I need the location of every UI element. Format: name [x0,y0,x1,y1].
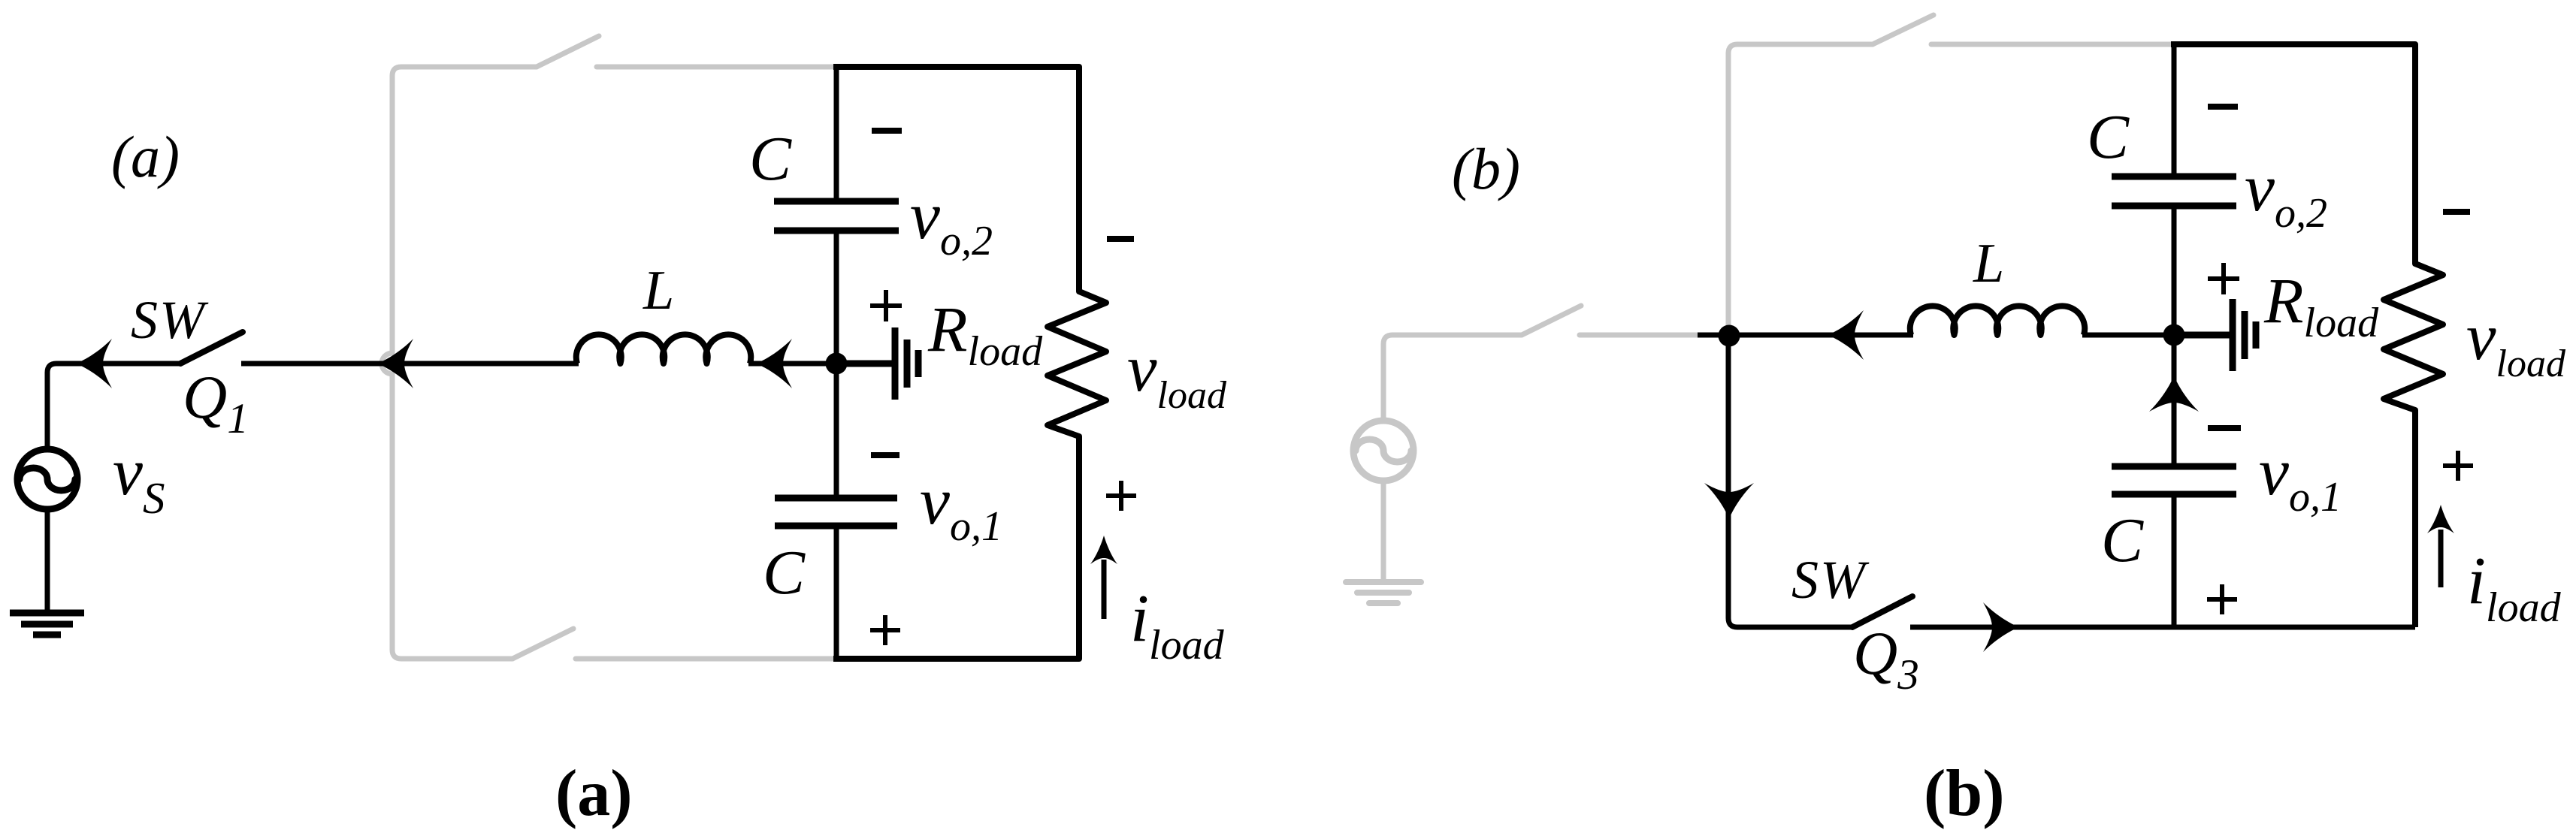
iload arrowhead of circuit (b) [2427,505,2454,533]
inductor L of circuit (b) [1910,306,2085,335]
wire from inductor L to capacitor-branch node, circuit (b) [2082,333,2174,338]
iload arrow shaft of circuit (a) [1102,560,1107,619]
vertical wire from node junction down and bottom rail left segment to switch, circuit (b) [1728,335,1852,627]
wire: gray segment from switch to node junction of circuit (b) [1580,333,1700,338]
capacitor branch vertical wire upper part, circuit (a) [834,69,839,198]
plus sign at bottom of load resistor, circuit (a) [1106,481,1136,511]
minus sign above bottom capacitor, circuit (a) [871,452,899,458]
minus sign at top of load resistor, circuit (a) [1107,236,1134,242]
minus sign above top capacitor, circuit (b) [2208,104,2238,110]
current arrowhead on wire near source vS, circuit (a) [76,339,112,388]
capacitor branch vertical wire middle part, circuit (a) [834,234,839,495]
current arrowhead pointing down on vertical wire, circuit (b) [1704,483,1754,519]
svg-text:vo,1: vo,1 [2259,435,2342,521]
capacitor branch vertical wire middle part, circuit (b) [2172,209,2177,463]
wire from source vS up to switch SW [47,364,180,449]
switch blade (open, gray) on top rail of circuit (b) [1873,15,1934,44]
current arrowhead on wire toward node junction, circuit (b) [1828,310,1864,360]
svg-text:C: C [2087,102,2130,172]
capacitor C (top) plates of circuit (b) [2112,177,2236,206]
minus sign at top of load resistor, circuit (b) [2443,209,2470,215]
wire from switch SW to inductor L of circuit (a) [241,361,579,367]
svg-text:SW: SW [1791,550,1870,610]
svg-text:C: C [749,124,792,194]
minus sign below capacitor node, circuit (b) [2208,425,2241,431]
capacitor branch vertical wire lower part, circuit (b) [2172,497,2177,627]
svg-text:iload: iload [1130,581,1225,668]
svg-text:vload: vload [2466,300,2566,385]
wire from source vS down to ground [45,509,50,611]
wire: gray source branch of circuit (b): vertical up from source and horizontal to switch [1383,335,1522,418]
wire: gray top rail right segment of circuit (b) [1931,42,2172,47]
svg-text:(b): (b) [1924,757,2005,830]
node junction dot (left) of circuit (b) [1719,325,1740,347]
load loop: top rail, right branch with resistor Rload zigzag, circuit (b) [2171,44,2443,627]
wire from gray source down to gray ground, circuit (b) [1381,484,1386,580]
capacitor C (top) plates of circuit (a) [774,201,899,231]
wire: bottom rail from switch to load loop, circuit (b) [1910,625,2415,630]
svg-text:(b): (b) [1452,136,1520,201]
wire: gray top rail left segment and vertical of circuit (b) [1728,44,1873,332]
wire: gray bottom rail right segment of circuit (a) [576,656,835,662]
wire from node junction to inductor L, circuit (b) [1698,333,1913,338]
wire: gray top rail right segment of circuit (a) [597,65,834,70]
capacitor C (bottom) plates of circuit (b) [2112,466,2236,494]
svg-text:(a): (a) [111,124,180,189]
svg-text:L: L [1973,233,2004,294]
svg-text:C: C [2101,506,2144,575]
source vS sine wave symbol [20,468,75,490]
svg-text:vo,2: vo,2 [910,179,993,264]
load loop: top rail, right branch with resistor Rload zigzag, bottom rail of circuit (a) [833,67,1106,659]
plus sign above capacitor node, circuit (b) [2208,263,2239,294]
rotated ground symbol at node A (Rload reference) of circuit (a) [836,327,918,400]
wire from inductor L to node A junction of circuit (a) [748,361,836,367]
node junction dot at capacitor branch of circuit (b) [2163,324,2185,346]
svg-text:L: L [642,260,674,321]
rotated ground symbol at node (Rload reference) of circuit (b) [2174,299,2256,371]
svg-text:Rload: Rload [2263,264,2379,346]
capacitor C (bottom) plates of circuit (a) [775,498,897,526]
capacitor branch vertical wire lower part, circuit (a) [834,529,839,659]
svg-text:vo,1: vo,1 [920,464,1002,550]
source sine wave symbol (gray) of circuit (b) [1356,439,1411,462]
ground symbol (gray) of circuit (b) [1346,582,1421,603]
current arrowhead at inductor L output, circuit (a) [756,339,792,388]
svg-text:vo,2: vo,2 [2245,151,2327,237]
iload arrow shaft of circuit (b) [2438,530,2444,587]
svg-text:C: C [763,538,806,608]
iload arrowhead of circuit (a) [1090,536,1117,564]
ground symbol of circuit (a) [10,613,84,635]
svg-text:vS: vS [113,435,165,523]
switch SW Q3 blade (open) of circuit (b) [1852,596,1912,627]
switch blade (open, gray) on top rail of circuit (a) [537,36,599,67]
source AC circle (gray) of circuit (b) [1353,421,1413,481]
svg-text:(a): (a) [555,757,633,830]
switch SW Q1 blade (open) of circuit (a) [180,332,243,364]
svg-text:vload: vload [1127,332,1227,417]
current arrowhead pointing up below capacitor node, circuit (b) [2149,376,2199,412]
switch blade (open, gray) on bottom rail of circuit (a) [512,629,573,659]
plus sign below bottom capacitor, circuit (b) [2207,584,2237,614]
svg-text:Q3: Q3 [1853,619,1919,699]
svg-text:Q1: Q1 [183,363,249,442]
minus sign above top capacitor, circuit (a) [872,128,902,134]
svg-text:Rload: Rload [927,293,1043,375]
capacitor branch vertical wire upper part, circuit (b) [2172,47,2177,174]
source vS: AC source circle of circuit (a) [17,449,77,509]
plus sign below bottom capacitor, circuit (a) [870,615,900,645]
svg-text:iload: iload [2467,544,2562,631]
current arrowhead pointing right on bottom rail, circuit (b) [1983,602,2019,652]
inductor L of circuit (a) [576,334,751,364]
plus sign above node A, circuit (a) [870,290,902,321]
node A junction dot of circuit (a) [826,353,848,375]
plus sign at bottom of load resistor, circuit (b) [2443,451,2473,481]
switch blade (open, gray) on source rail of circuit (b) [1522,306,1581,335]
svg-text:SW: SW [131,290,209,350]
current arrowhead on wire left of gray crossing, circuit (a) [377,339,413,388]
wire: inactive gray left branch of circuit (a): top rail left segment, vertical with hop, bottom rail left segment [382,67,537,659]
